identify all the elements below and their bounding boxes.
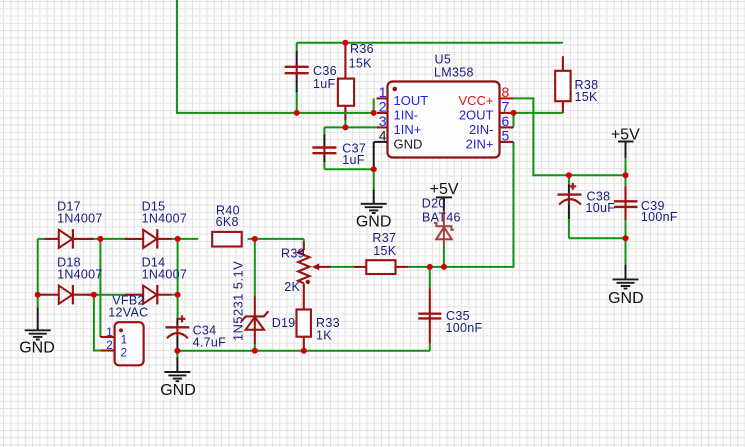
svg-text:R37: R37 xyxy=(372,231,396,245)
svg-text:VCC+: VCC+ xyxy=(458,93,493,108)
svg-text:1N4007: 1N4007 xyxy=(57,267,103,281)
svg-text:2IN-: 2IN- xyxy=(469,122,494,137)
svg-text:4: 4 xyxy=(379,127,387,143)
svg-text:1uF: 1uF xyxy=(342,153,365,167)
svg-text:+5V: +5V xyxy=(430,181,459,198)
svg-text:2OUT: 2OUT xyxy=(459,107,494,122)
svg-text:15K: 15K xyxy=(373,244,397,258)
svg-text:12VAC: 12VAC xyxy=(108,305,148,319)
svg-text:1N5231 5.1V: 1N5231 5.1V xyxy=(230,261,245,341)
svg-text:D19: D19 xyxy=(272,316,296,330)
svg-text:5: 5 xyxy=(502,127,510,143)
svg-text:+5V: +5V xyxy=(611,127,640,144)
svg-text:BAT46: BAT46 xyxy=(422,211,461,225)
svg-text:10uF: 10uF xyxy=(586,201,616,215)
svg-text:2: 2 xyxy=(106,338,113,352)
svg-text:GND: GND xyxy=(160,382,196,399)
svg-text:GND: GND xyxy=(19,339,55,356)
svg-text:100nF: 100nF xyxy=(641,210,678,224)
svg-text:1IN+: 1IN+ xyxy=(394,122,422,137)
svg-text:1N4007: 1N4007 xyxy=(57,211,103,225)
svg-text:GND: GND xyxy=(356,214,392,231)
svg-text:1N4007: 1N4007 xyxy=(142,211,188,225)
svg-text:LM358: LM358 xyxy=(434,65,474,79)
svg-text:GND: GND xyxy=(394,136,423,151)
svg-text:2: 2 xyxy=(120,346,127,360)
svg-text:R39: R39 xyxy=(281,246,305,260)
svg-text:2IN+: 2IN+ xyxy=(466,136,494,151)
svg-text:1IN-: 1IN- xyxy=(394,107,419,122)
svg-text:GND: GND xyxy=(608,290,644,307)
svg-text:D20: D20 xyxy=(422,197,446,211)
svg-text:R36: R36 xyxy=(350,42,374,56)
svg-text:100nF: 100nF xyxy=(446,321,483,335)
svg-text:1: 1 xyxy=(106,325,113,339)
svg-text:15K: 15K xyxy=(575,90,599,104)
svg-text:6K8: 6K8 xyxy=(216,215,239,229)
svg-text:15K: 15K xyxy=(349,57,373,71)
svg-text:1: 1 xyxy=(120,332,127,346)
svg-text:4.7uF: 4.7uF xyxy=(193,336,227,350)
svg-text:1K: 1K xyxy=(316,328,332,342)
svg-text:1uF: 1uF xyxy=(313,77,336,91)
svg-text:2K: 2K xyxy=(284,280,300,294)
svg-text:1OUT: 1OUT xyxy=(394,93,429,108)
svg-text:1N4007: 1N4007 xyxy=(142,267,188,281)
